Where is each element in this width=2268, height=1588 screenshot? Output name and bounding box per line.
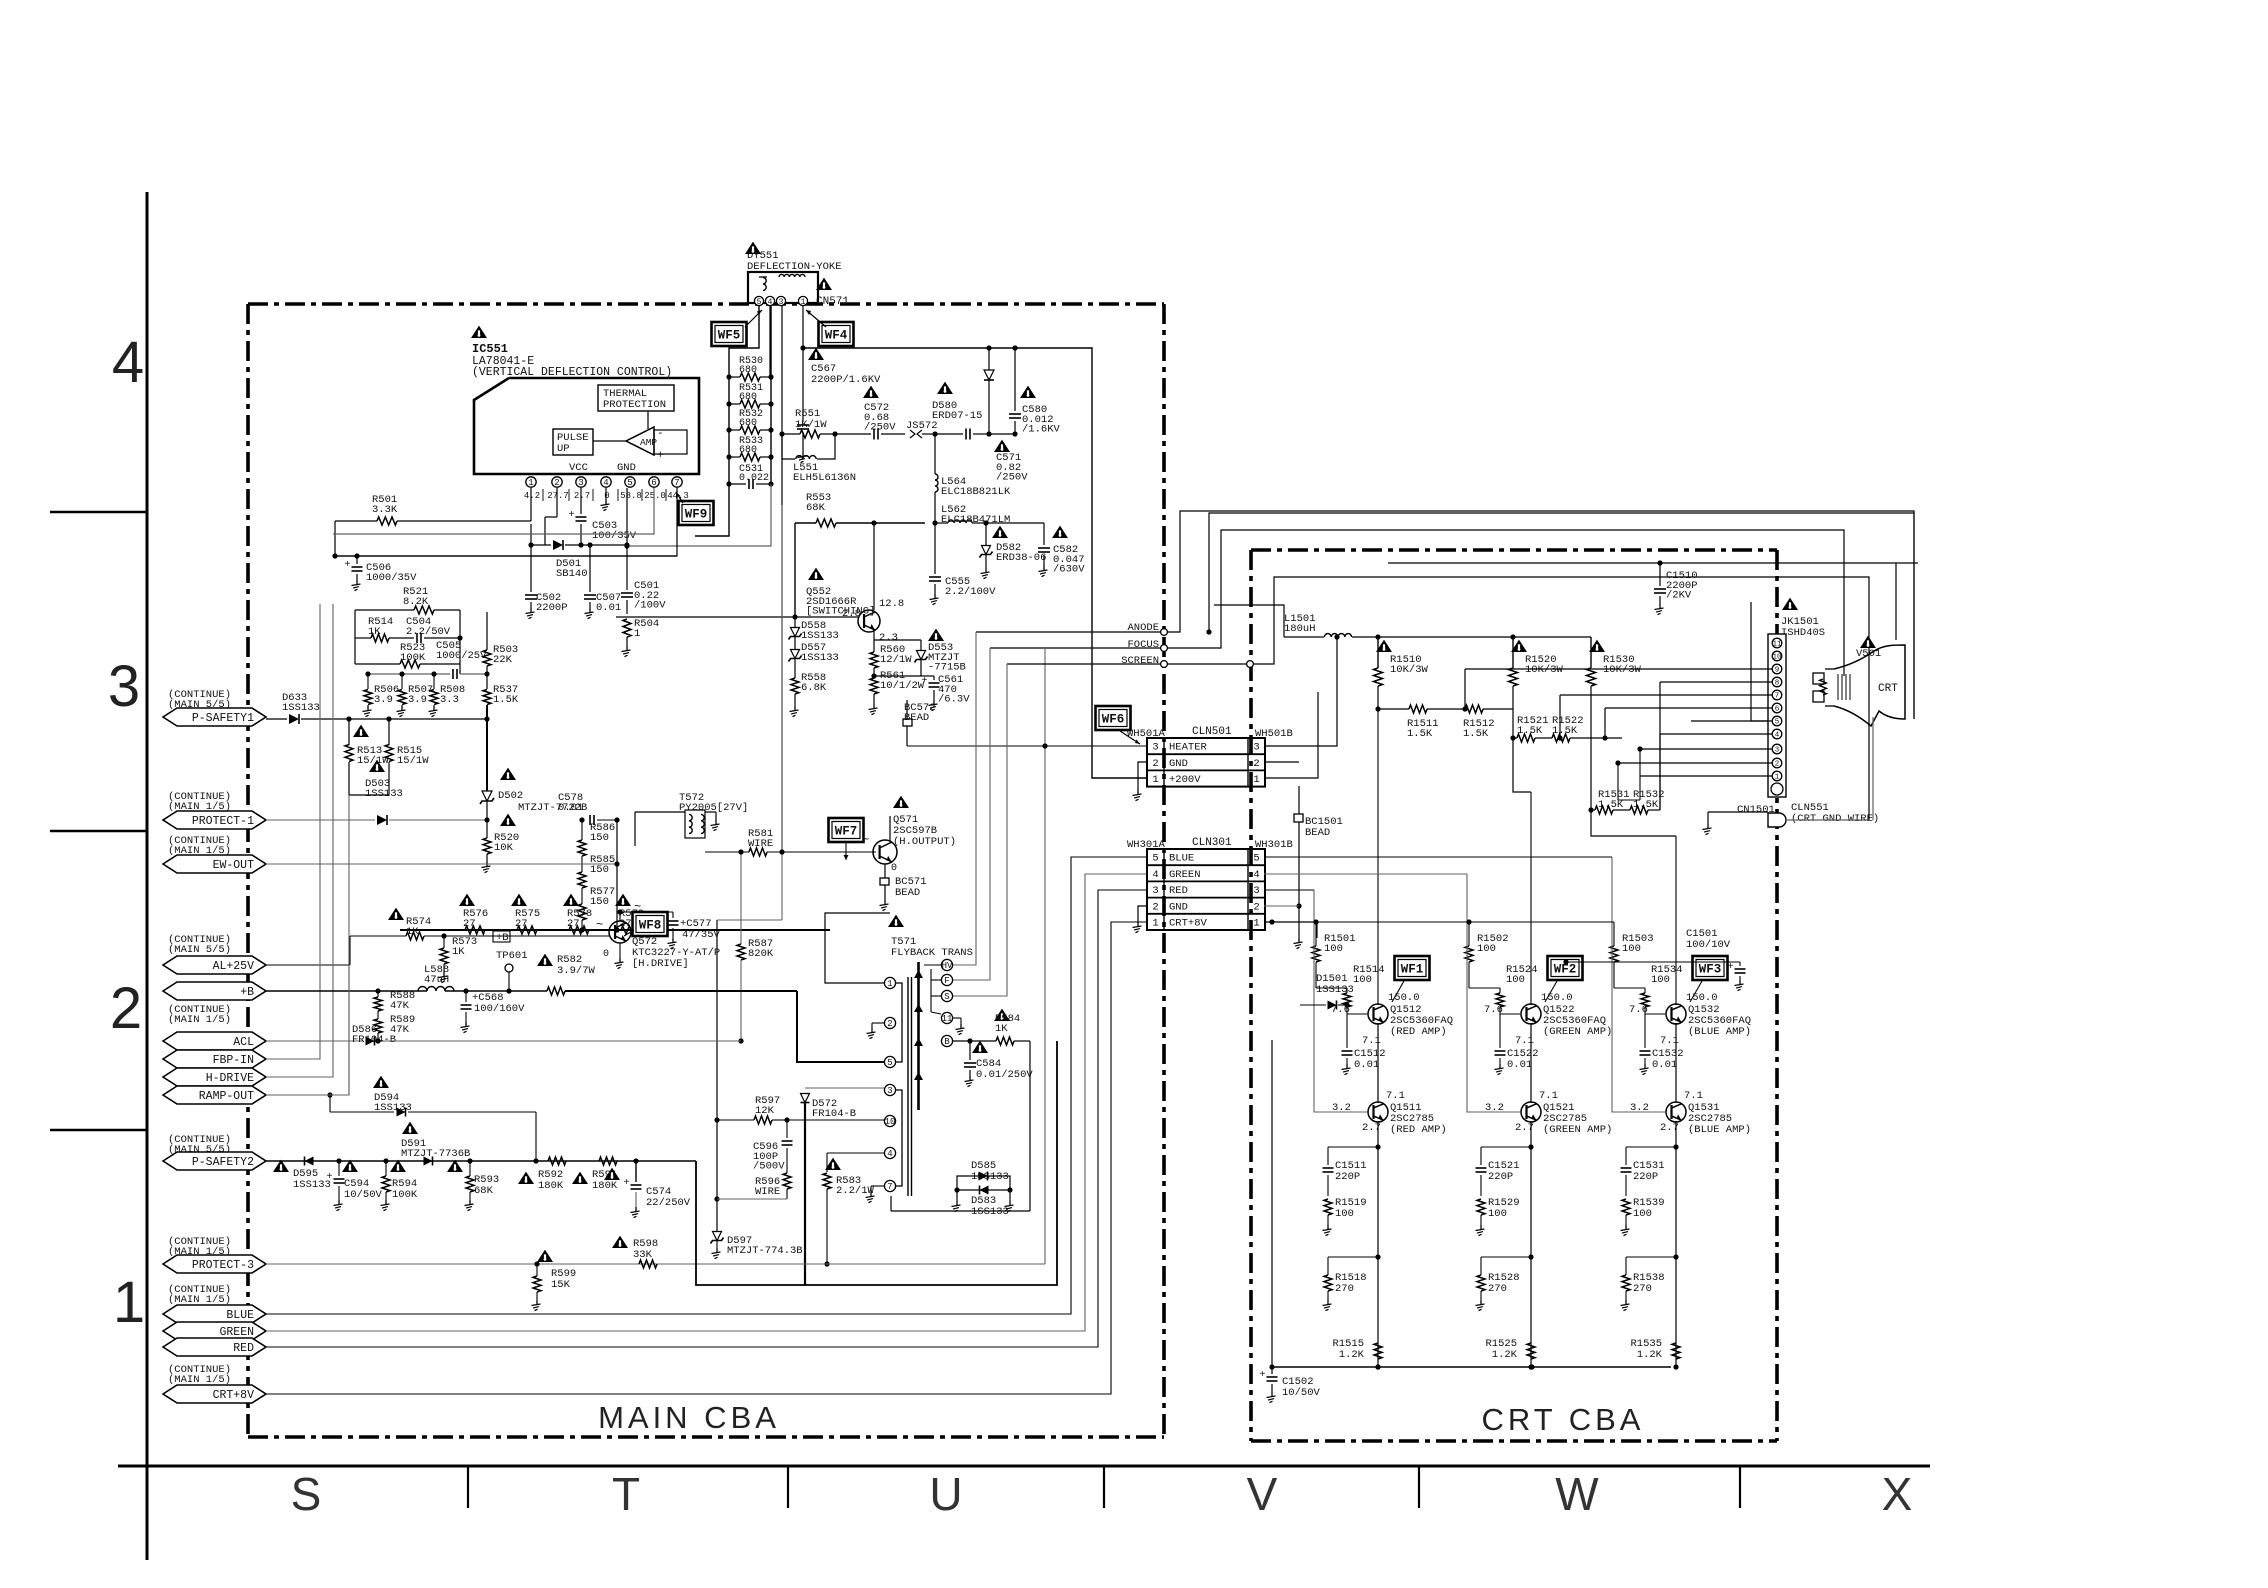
net tag H-DRIVE bbox=[163, 1068, 266, 1086]
svg-text:15/1W: 15/1W bbox=[397, 755, 429, 767]
flyback pin 11 bbox=[941, 1012, 952, 1023]
capacitor C582 warning bbox=[1052, 526, 1068, 538]
svg-text:270: 270 bbox=[1488, 1283, 1507, 1295]
svg-text:/2KV: /2KV bbox=[1666, 590, 1692, 602]
wire CRT gnd bbox=[1786, 819, 1869, 821]
diode D553 bbox=[917, 651, 926, 660]
transistor Q552 bbox=[858, 610, 880, 632]
svg-text:D502: D502 bbox=[498, 790, 523, 802]
svg-text:[H.DRIVE]: [H.DRIVE] bbox=[632, 958, 689, 970]
svg-text:100: 100 bbox=[1335, 1208, 1354, 1220]
resistor R1512 bbox=[1465, 705, 1483, 713]
svg-text:0.01: 0.01 bbox=[558, 802, 583, 814]
svg-text:VCC: VCC bbox=[569, 462, 588, 474]
IC551 pin 4 bbox=[601, 477, 611, 487]
svg-text:47uH: 47uH bbox=[424, 974, 449, 986]
resistor R593 warning bbox=[447, 1160, 463, 1172]
svg-text:2200P: 2200P bbox=[536, 602, 568, 614]
svg-text:8: 8 bbox=[1775, 680, 1780, 688]
net tag P-SAFETY1 bbox=[163, 708, 266, 726]
svg-text:100/35V: 100/35V bbox=[592, 530, 637, 542]
transistor Q552 warning bbox=[808, 568, 824, 580]
svg-text:(H.OUTPUT): (H.OUTPUT) bbox=[893, 836, 956, 848]
net tag PROTECT-3 bbox=[163, 1255, 266, 1273]
wire heater row A bbox=[1045, 745, 1147, 747]
svg-text:10K: 10K bbox=[494, 842, 514, 854]
diode D580 warning bbox=[937, 382, 953, 394]
svg-text:7.1: 7.1 bbox=[1660, 1035, 1679, 1047]
diode D585 bbox=[957, 1176, 1010, 1190]
svg-text:150: 150 bbox=[590, 832, 609, 844]
svg-text:1SS133: 1SS133 bbox=[293, 1179, 331, 1191]
capacitor C504 bbox=[416, 633, 418, 643]
net tag P-SAFETY2 bbox=[163, 1152, 266, 1170]
svg-text:1K: 1K bbox=[452, 946, 465, 958]
resistor R597 bbox=[717, 1119, 754, 1121]
svg-text:GND: GND bbox=[617, 462, 636, 474]
diode D572 bbox=[805, 1087, 884, 1089]
svg-text:1SS133: 1SS133 bbox=[971, 1171, 1009, 1183]
capacitor C567 warning bbox=[808, 348, 824, 360]
wire Q552 emitter bbox=[873, 631, 875, 652]
coil L588 bbox=[418, 987, 454, 992]
net tag PROTECT-1 bbox=[163, 811, 266, 829]
net tag RAMP-OUT bbox=[163, 1086, 266, 1104]
wire R1521 row bbox=[1513, 737, 1517, 739]
svg-text:100/10V: 100/10V bbox=[1686, 939, 1731, 951]
frame tick 4/3 bbox=[50, 511, 147, 513]
wire node bus 556 bbox=[335, 555, 677, 557]
wire R501 run bbox=[335, 520, 377, 522]
svg-text:4: 4 bbox=[603, 478, 608, 488]
wire focus feed bbox=[953, 648, 990, 980]
svg-text:12K: 12K bbox=[755, 1105, 775, 1117]
svg-text:0.022: 0.022 bbox=[739, 473, 769, 484]
capacitor C571 bbox=[965, 429, 967, 440]
svg-text:U: U bbox=[929, 1468, 962, 1520]
flyback pin 7 bbox=[884, 1180, 895, 1191]
svg-text:100: 100 bbox=[1651, 974, 1670, 986]
resistor R1524 bbox=[1496, 993, 1504, 1007]
resistor R587 bbox=[740, 852, 742, 944]
WF4 arrow bbox=[806, 310, 826, 327]
WF5 arrow bbox=[745, 310, 762, 327]
svg-text:CRT+8V: CRT+8V bbox=[1169, 917, 1208, 929]
svg-text:2.3: 2.3 bbox=[879, 632, 898, 644]
resistor R584 bbox=[996, 1037, 1014, 1045]
svg-text:1: 1 bbox=[1152, 774, 1158, 786]
svg-text:2: 2 bbox=[887, 1019, 892, 1029]
svg-text:68K: 68K bbox=[806, 502, 826, 514]
WF box WF3 bbox=[1693, 956, 1728, 980]
svg-text:CLN501: CLN501 bbox=[1192, 726, 1232, 738]
net tag BLUE bbox=[163, 1305, 266, 1323]
capacitor C572 bbox=[873, 429, 875, 440]
wire C1502 riser bbox=[1271, 1040, 1273, 1367]
frame bottom tick bbox=[787, 1466, 789, 1508]
capacitor C1502 bbox=[1269, 1364, 1274, 1369]
svg-text:3: 3 bbox=[1253, 742, 1259, 754]
wire pin3 left bbox=[1640, 748, 1772, 750]
wire T572 left bbox=[635, 811, 685, 813]
svg-text:ELH5L6136N: ELH5L6136N bbox=[793, 472, 856, 484]
capacitor C571 warning bbox=[994, 440, 1010, 452]
resistor R523 bbox=[400, 660, 420, 668]
capacitor C1510 bbox=[1659, 563, 1661, 586]
wire RED to amp bbox=[1264, 889, 1314, 891]
resistor R551 bbox=[800, 430, 820, 438]
wire cluster right bbox=[459, 610, 461, 674]
wire Q571 collector bbox=[889, 816, 891, 841]
diode D582 warning bbox=[992, 526, 1008, 538]
resistor R1515 bbox=[1374, 1343, 1382, 1359]
svg-text:12/1W: 12/1W bbox=[880, 654, 912, 666]
svg-text:MTZJT-774.3B: MTZJT-774.3B bbox=[727, 1245, 803, 1257]
svg-text:100/160V: 100/160V bbox=[474, 1003, 525, 1015]
svg-text:2: 2 bbox=[554, 478, 559, 488]
WF9 arrow bbox=[676, 492, 683, 503]
frame tick 2/1 bbox=[50, 1129, 147, 1131]
flyback pin S bbox=[941, 990, 952, 1001]
svg-text:WF2: WF2 bbox=[1554, 963, 1577, 977]
svg-text:3: 3 bbox=[887, 1086, 892, 1096]
IC551 pin 6 bbox=[649, 477, 659, 487]
svg-text:1000/25V: 1000/25V bbox=[436, 650, 487, 662]
svg-text:0.01: 0.01 bbox=[1507, 1059, 1532, 1071]
coil L551 bbox=[782, 434, 795, 459]
flyback pin 1 bbox=[884, 977, 895, 988]
diode D502 bbox=[482, 791, 492, 801]
svg-text:220P: 220P bbox=[1335, 1171, 1360, 1183]
net tag GREEN bbox=[163, 1322, 266, 1340]
svg-text:ISHD40S: ISHD40S bbox=[1781, 627, 1825, 639]
wire GREEN lower vertical bbox=[1530, 1023, 1532, 1103]
wire BLUE lower vertical bbox=[1675, 1023, 1677, 1103]
junction P-SAFETY1 bbox=[346, 716, 351, 721]
flyback winding arrow bbox=[914, 1072, 923, 1080]
svg-text:3: 3 bbox=[108, 654, 140, 719]
capacitor C1522 bbox=[1499, 1014, 1501, 1048]
diode D591 warning bbox=[402, 1122, 418, 1134]
WF arrow WF1 bbox=[1392, 981, 1404, 1002]
flyback pin 5 bbox=[884, 1056, 895, 1067]
svg-text:UP: UP bbox=[557, 443, 570, 455]
wire GREEN run bbox=[266, 874, 1147, 1331]
svg-text:7.1: 7.1 bbox=[1684, 1090, 1703, 1102]
svg-text:X: X bbox=[1882, 1468, 1913, 1520]
resistor R598 bbox=[639, 1260, 657, 1268]
svg-text:180K: 180K bbox=[592, 1180, 618, 1192]
svg-text:0.01: 0.01 bbox=[1354, 1059, 1379, 1071]
svg-text:T: T bbox=[612, 1468, 640, 1520]
diode D501 bbox=[531, 544, 551, 546]
wire CLN501 out3 bbox=[1264, 637, 1337, 746]
capacitor C507 bbox=[589, 545, 591, 592]
svg-text:10K/3W: 10K/3W bbox=[1603, 664, 1642, 676]
svg-text:P-SAFETY1: P-SAFETY1 bbox=[192, 712, 254, 725]
svg-text:AMP: AMP bbox=[640, 437, 657, 448]
svg-text:RED: RED bbox=[1169, 885, 1188, 897]
resistor R1534 bbox=[1641, 993, 1649, 1007]
wire pin7 left bbox=[1560, 694, 1772, 696]
resistor R1521 bbox=[1517, 734, 1535, 742]
wire FBP-IN up bbox=[319, 604, 321, 717]
svg-text:1SS133: 1SS133 bbox=[282, 702, 320, 714]
wire Q572 emitter bbox=[619, 943, 621, 958]
svg-text:EW-OUT: EW-OUT bbox=[213, 859, 255, 872]
wire R513 R515 join bbox=[349, 794, 389, 796]
resistor R553 bbox=[795, 522, 816, 524]
WF4 box bbox=[819, 322, 854, 346]
capacitor C1531 bbox=[1626, 1146, 1676, 1148]
svg-text:+: + bbox=[1728, 962, 1734, 973]
resistor R513 bbox=[345, 745, 353, 762]
wire cn1501 gnd bbox=[1708, 811, 1768, 813]
resistor R596 bbox=[783, 1173, 791, 1189]
wire R501 left bbox=[334, 521, 336, 556]
svg-text:270: 270 bbox=[1335, 1283, 1354, 1295]
wire FOCUS run bbox=[1168, 530, 1844, 676]
svg-text:FLYBACK TRANS: FLYBACK TRANS bbox=[891, 947, 973, 959]
flyback secondary winding bbox=[917, 962, 920, 1110]
flyback T571 warning bbox=[888, 915, 904, 927]
IC551 pulse up box bbox=[553, 429, 593, 455]
wire BLUE run bbox=[266, 857, 1147, 1314]
svg-text:PROTECT-1: PROTECT-1 bbox=[192, 815, 254, 828]
svg-text:1SS133: 1SS133 bbox=[801, 652, 839, 664]
svg-text:10: 10 bbox=[885, 1117, 896, 1127]
wire R553 left v bbox=[794, 523, 796, 617]
svg-text:RAMP-OUT: RAMP-OUT bbox=[199, 1090, 254, 1103]
svg-text:2: 2 bbox=[1253, 758, 1259, 770]
capacitor C594 warning bbox=[342, 1160, 358, 1172]
svg-text:6: 6 bbox=[651, 478, 656, 488]
svg-text:3.3: 3.3 bbox=[440, 694, 459, 706]
socket pin 4 bbox=[1772, 729, 1782, 739]
capacitor C1501 bbox=[1566, 961, 1740, 963]
connector CN571 warning bbox=[816, 278, 832, 290]
svg-text:WF9: WF9 bbox=[685, 508, 708, 522]
svg-text:WIRE: WIRE bbox=[755, 1186, 780, 1198]
diode D580 bbox=[984, 370, 994, 380]
capacitor C1521 bbox=[1481, 1146, 1531, 1148]
svg-text:+200V: +200V bbox=[1169, 774, 1201, 786]
wire R1510 down bbox=[1377, 686, 1379, 709]
capacitor C1512 bbox=[1346, 1014, 1348, 1048]
wire pin5 left bbox=[1691, 720, 1772, 722]
resistor R579 warning bbox=[615, 894, 631, 906]
svg-text:IC551: IC551 bbox=[472, 342, 508, 356]
svg-text:2.2/50V: 2.2/50V bbox=[406, 626, 451, 638]
svg-text:(BLUE AMP): (BLUE AMP) bbox=[1688, 1026, 1751, 1038]
resistor R521 bbox=[414, 606, 434, 614]
svg-text:6.8K: 6.8K bbox=[801, 682, 827, 694]
socket pin 2 bbox=[1772, 758, 1782, 768]
transistor Q571 bbox=[873, 840, 897, 864]
WF6 arrow bbox=[1120, 731, 1140, 744]
svg-text:RED: RED bbox=[233, 1342, 254, 1355]
svg-text:1SS133: 1SS133 bbox=[1316, 984, 1354, 996]
svg-text:0.01/250V: 0.01/250V bbox=[976, 1069, 1033, 1081]
wire L1501 left bbox=[1214, 605, 1284, 637]
svg-text:7.1: 7.1 bbox=[1515, 1035, 1534, 1047]
svg-text:5: 5 bbox=[1152, 853, 1158, 865]
svg-text:CN571: CN571 bbox=[816, 296, 849, 308]
capacitor C502 bbox=[530, 524, 532, 592]
IC551 pin 1 bbox=[526, 477, 536, 487]
CLN301 gnd stub bbox=[1138, 906, 1147, 922]
svg-text:1: 1 bbox=[1152, 917, 1158, 929]
wire DY pin3 down bbox=[781, 306, 783, 852]
net tag FBP-IN bbox=[163, 1050, 266, 1068]
IC551 amp triangle bbox=[626, 427, 654, 455]
svg-text:GND: GND bbox=[1169, 901, 1188, 913]
capacitor C580 bbox=[1014, 348, 1016, 411]
resistor R1518 bbox=[1328, 1256, 1378, 1258]
socket pin 7 bbox=[1772, 690, 1782, 700]
svg-text:7.1: 7.1 bbox=[1386, 1090, 1405, 1102]
resistor R1530 warning bbox=[1589, 640, 1605, 652]
svg-text:100: 100 bbox=[1477, 943, 1496, 955]
resistor R573 bbox=[440, 948, 448, 964]
resistor R591 warning bbox=[572, 1172, 588, 1184]
svg-text:1: 1 bbox=[887, 979, 892, 989]
svg-text:+: + bbox=[327, 1172, 333, 1183]
resistor R586 bbox=[578, 840, 586, 856]
border frame left ruler line bbox=[146, 192, 149, 1560]
svg-text:3.9: 3.9 bbox=[374, 694, 393, 706]
svg-text:+: + bbox=[345, 560, 351, 571]
svg-text:(MAIN 1/5): (MAIN 1/5) bbox=[168, 1014, 231, 1026]
svg-text:3.9: 3.9 bbox=[408, 694, 427, 706]
wire R1520 down bbox=[1513, 738, 1531, 792]
wire ACL D586 bbox=[266, 1040, 363, 1042]
svg-text:12.8: 12.8 bbox=[879, 598, 904, 610]
WF box WF1 bbox=[1395, 956, 1430, 980]
capacitor C503 bbox=[580, 488, 582, 514]
net SCREEN bbox=[1161, 661, 1168, 668]
resistor R589 bbox=[374, 1019, 382, 1033]
svg-text:2.7: 2.7 bbox=[1362, 1122, 1381, 1134]
bead BC572 bbox=[903, 719, 912, 726]
resistor R1519 bbox=[1324, 1199, 1332, 1215]
frame tick 3/2 bbox=[50, 830, 147, 832]
svg-text:/630V: /630V bbox=[1053, 564, 1085, 576]
diode D633 bbox=[266, 718, 287, 720]
CRT neck bbox=[1825, 668, 1834, 670]
svg-text:/6.3V: /6.3V bbox=[938, 694, 970, 706]
svg-text:0.01: 0.01 bbox=[1652, 1059, 1677, 1071]
WF7 box bbox=[829, 818, 864, 842]
svg-text:220P: 220P bbox=[1633, 1171, 1658, 1183]
svg-text:1: 1 bbox=[528, 478, 533, 488]
svg-text:ERD07-15: ERD07-15 bbox=[932, 410, 982, 422]
wire RED lower vertical bbox=[1377, 1023, 1379, 1103]
diode D1501 bbox=[1300, 1004, 1326, 1006]
svg-text:7: 7 bbox=[674, 478, 679, 488]
svg-text:1: 1 bbox=[634, 628, 640, 640]
diode D591 bbox=[424, 1157, 433, 1166]
socket pin 6 bbox=[1772, 703, 1782, 713]
wire DY pin4 down bbox=[769, 306, 771, 377]
svg-text:5: 5 bbox=[757, 298, 762, 307]
resistor ladder right bus bbox=[770, 306, 772, 484]
CRT heater resistor bbox=[1820, 679, 1827, 695]
svg-text:1K/1W: 1K/1W bbox=[795, 419, 827, 431]
wire CLN501 out1 bbox=[1264, 692, 1318, 778]
svg-text:4: 4 bbox=[112, 330, 144, 395]
svg-text:(MAIN 5/5): (MAIN 5/5) bbox=[168, 944, 231, 956]
resistor R599 warning bbox=[537, 1250, 553, 1262]
svg-text:TP601: TP601 bbox=[496, 950, 528, 962]
frame bottom tick bbox=[1103, 1466, 1105, 1508]
svg-text:2: 2 bbox=[1152, 758, 1158, 770]
svg-text:H-DRIVE: H-DRIVE bbox=[206, 1072, 254, 1085]
svg-text:3: 3 bbox=[779, 298, 784, 307]
flyback pin11 gnd bbox=[953, 1017, 961, 1019]
svg-text:W: W bbox=[1555, 1468, 1599, 1520]
wire anode loop left bbox=[1209, 513, 1914, 719]
WF7 arrow bbox=[845, 843, 847, 860]
flyback pin 3 bbox=[884, 1084, 895, 1095]
CRT CBA border left bbox=[1249, 550, 1253, 1441]
svg-text:SB140: SB140 bbox=[556, 568, 588, 580]
flyback primary bracket1 bbox=[890, 983, 902, 1062]
svg-text:100K: 100K bbox=[400, 652, 426, 664]
resistor R506 bbox=[367, 674, 369, 689]
svg-text:GREEN: GREEN bbox=[219, 1326, 254, 1339]
svg-text:68K: 68K bbox=[474, 1185, 494, 1197]
svg-text:1.2K: 1.2K bbox=[1492, 1349, 1518, 1361]
svg-text:220P: 220P bbox=[1488, 1171, 1513, 1183]
svg-text:6: 6 bbox=[1775, 706, 1780, 714]
wire CLN301 GND node bbox=[1296, 903, 1301, 908]
resistor R593 bbox=[466, 1176, 474, 1192]
svg-text:2: 2 bbox=[1152, 901, 1158, 913]
diode D557 bbox=[791, 650, 800, 659]
transformer T572 bbox=[685, 810, 705, 838]
transistor Q572 bbox=[609, 921, 631, 943]
resistor R583 warning bbox=[825, 1158, 841, 1170]
CRT funnel outline bbox=[1834, 645, 1905, 726]
resistor R574 warning bbox=[388, 908, 404, 920]
svg-text:WF8: WF8 bbox=[639, 919, 662, 933]
net ANODE bbox=[1161, 629, 1168, 636]
EW-OUT wire bbox=[266, 863, 617, 865]
diode D595 warning bbox=[273, 1160, 289, 1172]
svg-text:/1.6KV: /1.6KV bbox=[1022, 424, 1061, 436]
transistor Q1521 bbox=[1521, 1102, 1541, 1122]
svg-text:22K: 22K bbox=[493, 654, 513, 666]
resistor R588 bbox=[374, 997, 382, 1011]
connector CLN301 table bbox=[1147, 849, 1265, 930]
capacitor C505 bbox=[452, 669, 454, 679]
resistor R515 bbox=[385, 745, 393, 762]
resistor R507 bbox=[401, 674, 403, 689]
frame bottom tick bbox=[467, 1466, 469, 1508]
resistor R1522 bbox=[1552, 734, 1570, 742]
IC551 pin 3 bbox=[576, 477, 586, 487]
resistor R1520 warning bbox=[1511, 640, 1527, 652]
wire bus FBP-IN bbox=[266, 717, 320, 1059]
svg-text:7: 7 bbox=[887, 1182, 892, 1192]
svg-text:2.7: 2.7 bbox=[1515, 1122, 1534, 1134]
resistor R514 bbox=[371, 634, 389, 642]
resistor R558 bbox=[791, 678, 799, 694]
socket pin 10 bbox=[1772, 651, 1782, 661]
wire bottom bus bbox=[1272, 1366, 1671, 1368]
net tag EW-OUT bbox=[163, 855, 266, 873]
